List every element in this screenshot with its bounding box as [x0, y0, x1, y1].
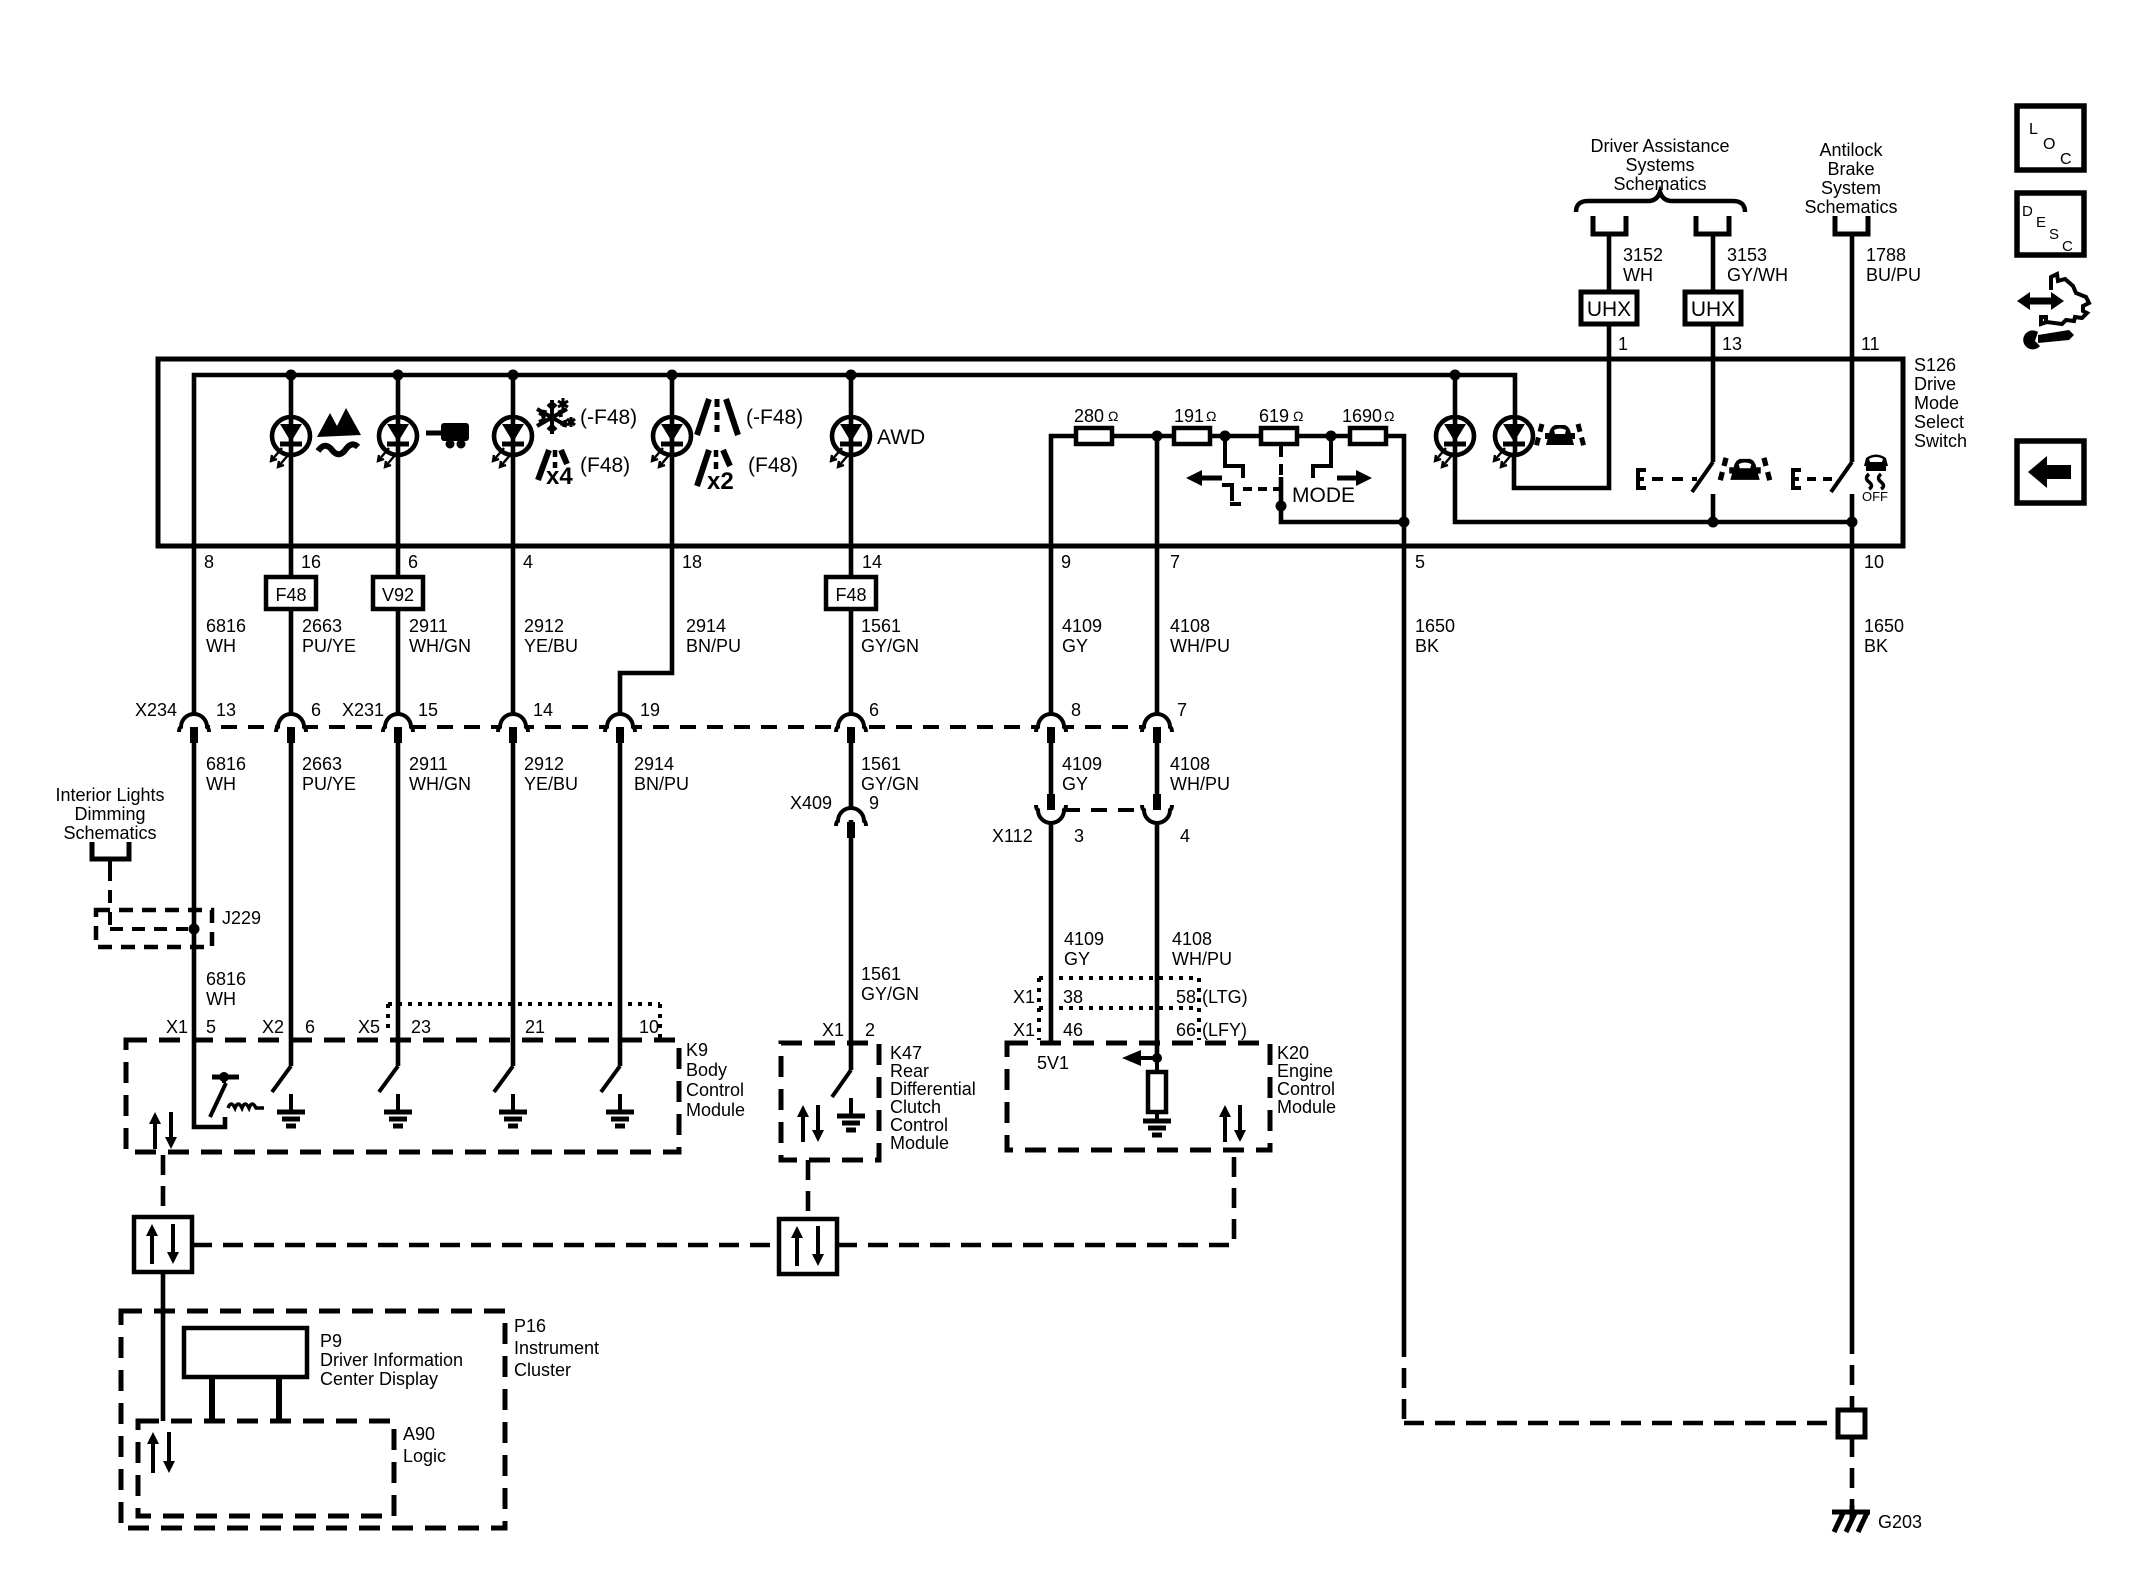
- svg-text:4108: 4108: [1172, 929, 1212, 949]
- svg-text:14: 14: [533, 700, 553, 720]
- svg-text:6: 6: [311, 700, 321, 720]
- wire 2663 PU/YE (pin 16 to K9 X2-6): [289, 546, 294, 577]
- svg-text:4: 4: [523, 552, 533, 572]
- icon slippery road (LED mode1): [317, 408, 361, 454]
- connector X112 pin 3: [1042, 812, 1060, 823]
- svg-text:GY/GN: GY/GN: [861, 984, 919, 1004]
- svg-text:(LTG): (LTG): [1202, 987, 1248, 1007]
- MODE switch left fixed contact: [1225, 436, 1243, 478]
- svg-text:WH/PU: WH/PU: [1170, 636, 1230, 656]
- svg-text:15: 15: [418, 700, 438, 720]
- svg-text:Ω: Ω: [1206, 408, 1216, 424]
- K9 dimmer rheostat (X1-5): [194, 1040, 264, 1127]
- svg-text:4108: 4108: [1170, 754, 1210, 774]
- connector X409 pin 9: [842, 809, 860, 820]
- header Driver Assistance Systems Schematics: [1590, 136, 1729, 194]
- K9 switch to ground (X2-6): [289, 1040, 294, 1066]
- switch1 lane-keep blade: [1692, 462, 1713, 492]
- K20 Engine Control Module box: [1007, 1043, 1270, 1150]
- connector X234 pin 6: [282, 714, 300, 725]
- svg-text:S: S: [2049, 226, 2059, 243]
- svg-text:1690: 1690: [1342, 406, 1382, 426]
- node switch2-bus: [1847, 517, 1858, 528]
- K47 switch to ground (X1-2): [849, 1043, 854, 1070]
- svg-text:8: 8: [1071, 700, 1081, 720]
- svg-text:P9: P9: [320, 1331, 342, 1351]
- svg-text:AWD: AWD: [877, 426, 925, 449]
- serial data connector box (right): [779, 1219, 837, 1274]
- svg-text:280: 280: [1074, 406, 1104, 426]
- svg-text:C: C: [2062, 238, 2073, 255]
- svg-text:GY/WH: GY/WH: [1727, 265, 1788, 285]
- K20 internal ground: [1155, 1112, 1159, 1120]
- svg-text:System: System: [1821, 178, 1881, 198]
- svg-text:MODE: MODE: [1292, 484, 1355, 507]
- resistor 619 ohm: [1261, 428, 1297, 444]
- S126 bottom pin numbers: [204, 552, 1884, 572]
- wire pin11 into switch2: [1850, 240, 1855, 462]
- svg-text:8: 8: [204, 552, 214, 572]
- icon x4 road (LED snow alt): [538, 450, 573, 490]
- svg-text:21: 21: [525, 1017, 545, 1037]
- svg-text:PU/YE: PU/YE: [302, 636, 356, 656]
- LED indicator drv-assist-2: [1494, 417, 1533, 467]
- svg-text:Driver Assistance: Driver Assistance: [1590, 136, 1729, 156]
- svg-text:Center Display: Center Display: [320, 1369, 438, 1389]
- wire 2914 BN/PU (pin 18 to K9 10): [620, 546, 672, 727]
- node switch1-bus: [1708, 517, 1719, 528]
- node ladder-pin7: [1152, 431, 1163, 442]
- svg-text:Schematics: Schematics: [1804, 197, 1897, 217]
- K9 switch to ground (21): [511, 1040, 516, 1066]
- svg-text:4109: 4109: [1062, 754, 1102, 774]
- svg-text:WH: WH: [206, 989, 236, 1009]
- svg-text:GY: GY: [1062, 774, 1088, 794]
- ground G203: [1832, 1505, 1870, 1532]
- svg-text:Control: Control: [890, 1115, 948, 1135]
- off-page connector to driver assistance (wire 3153): [1696, 216, 1729, 234]
- svg-text:6816: 6816: [206, 616, 246, 636]
- svg-text:(LFY): (LFY): [1202, 1020, 1247, 1040]
- icon lane keep car (LED drv-assist-2): [1536, 424, 1584, 447]
- module V92: [373, 577, 423, 609]
- svg-text:GY: GY: [1062, 636, 1088, 656]
- svg-text:19: 19: [640, 700, 660, 720]
- svg-text:Drive: Drive: [1914, 374, 1956, 394]
- svg-text:Schematics: Schematics: [63, 823, 156, 843]
- svg-text:BN/PU: BN/PU: [686, 636, 741, 656]
- svg-text:66: 66: [1176, 1020, 1196, 1040]
- svg-text:UHX: UHX: [1587, 298, 1631, 321]
- svg-text:WH: WH: [206, 636, 236, 656]
- connector UHX 1: [1581, 292, 1637, 324]
- svg-text:Select: Select: [1914, 412, 1964, 432]
- svg-text:UHX: UHX: [1691, 298, 1735, 321]
- svg-text:9: 9: [869, 793, 879, 813]
- wire 3152 WH: [1607, 234, 1612, 292]
- bus junction node: [393, 370, 404, 381]
- svg-text:6: 6: [305, 1017, 315, 1037]
- svg-text:BK: BK: [1415, 636, 1439, 656]
- wire 1788 BU/PU: [1850, 234, 1855, 240]
- svg-text:YE/BU: YE/BU: [524, 636, 578, 656]
- svg-text:x2: x2: [707, 468, 734, 495]
- svg-text:(-F48): (-F48): [746, 406, 803, 429]
- svg-text:Interior Lights: Interior Lights: [55, 785, 164, 805]
- svg-text:F48: F48: [275, 585, 306, 605]
- svg-text:(F48): (F48): [748, 454, 798, 477]
- svg-text:Logic: Logic: [403, 1446, 446, 1466]
- svg-text:Dimming: Dimming: [74, 804, 145, 824]
- svg-text:Module: Module: [686, 1100, 745, 1120]
- LED indicator tow: [378, 417, 417, 467]
- wire switch1 to bus: [1711, 494, 1716, 522]
- connector X112 pin 4: [1148, 812, 1166, 823]
- svg-text:Control: Control: [1277, 1079, 1335, 1099]
- svg-text:X231: X231: [342, 700, 384, 720]
- svg-text:GY/GN: GY/GN: [861, 774, 919, 794]
- svg-text:Antilock: Antilock: [1819, 140, 1883, 160]
- LED indicator road: [652, 417, 691, 467]
- svg-text:WH/PU: WH/PU: [1172, 949, 1232, 969]
- svg-text:Rear: Rear: [890, 1061, 929, 1081]
- svg-text:Driver Information: Driver Information: [320, 1350, 463, 1370]
- LED indicator awd: [831, 417, 870, 467]
- wire serial box to P16: [161, 1272, 166, 1421]
- svg-text:3: 3: [1074, 826, 1084, 846]
- serial bus K47 drop: [806, 1160, 811, 1219]
- svg-text:1561: 1561: [861, 754, 901, 774]
- svg-text:2663: 2663: [302, 616, 342, 636]
- svg-text:5: 5: [206, 1017, 216, 1037]
- connector X231 pin 8: [1042, 714, 1060, 725]
- resistor 280 ohm: [1076, 428, 1112, 444]
- svg-text:6816: 6816: [206, 969, 246, 989]
- wire 6816 WH (pin 8 to K9 X1-5): [192, 546, 197, 727]
- bus junction node: [1450, 370, 1461, 381]
- svg-text:WH/PU: WH/PU: [1170, 774, 1230, 794]
- serial data connector box (left): [134, 1217, 192, 1272]
- svg-text:10: 10: [639, 1017, 659, 1037]
- supply bus wire inside S126: [194, 375, 1515, 546]
- svg-text:G203: G203: [1878, 1512, 1922, 1532]
- icon trailer (LED tow): [426, 423, 469, 449]
- connector UHX 2: [1685, 292, 1741, 324]
- connector row dashed line X234/X231: [194, 725, 1157, 729]
- header Antilock Brake System Schematics: [1804, 140, 1897, 217]
- wire LED column pin18: [670, 375, 675, 546]
- svg-text:X1: X1: [822, 1020, 844, 1040]
- svg-text:F48: F48: [835, 585, 866, 605]
- fuse F48 (awd): [826, 577, 876, 609]
- wire 3153 GY/WH: [1711, 234, 1716, 292]
- splice block to ground: [1838, 1410, 1865, 1437]
- icon lane keep car (switch1): [1720, 458, 1770, 482]
- svg-text:6: 6: [869, 700, 879, 720]
- svg-text:1650: 1650: [1864, 616, 1904, 636]
- wire UHX2 to pin 13: [1711, 324, 1716, 360]
- svg-text:23: 23: [411, 1017, 431, 1037]
- svg-text:13: 13: [216, 700, 236, 720]
- svg-text:5: 5: [1415, 552, 1425, 572]
- K47 serial data arrows: [801, 1115, 805, 1142]
- wire 4108 WH/PU (pin 7 to K20 X1-66): [1155, 436, 1160, 727]
- svg-text:1561: 1561: [861, 964, 901, 984]
- connector X1 dotted block (K20): [1039, 978, 1199, 1040]
- svg-text:BN/PU: BN/PU: [634, 774, 689, 794]
- svg-text:P16: P16: [514, 1316, 546, 1336]
- wire LED6 to selector bus: [1455, 375, 1852, 522]
- svg-text:BU/PU: BU/PU: [1866, 265, 1921, 285]
- wire LED column pin4: [511, 375, 516, 546]
- K47 Rear Differential Clutch Control Module box: [781, 1043, 879, 1160]
- svg-text:Control: Control: [686, 1080, 744, 1100]
- svg-text:Brake: Brake: [1827, 159, 1874, 179]
- svg-text:Mode: Mode: [1914, 393, 1959, 413]
- svg-text:Switch: Switch: [1914, 431, 1967, 451]
- brace under header: [1576, 192, 1745, 212]
- svg-text:2: 2: [865, 1020, 875, 1040]
- wire switch2 to pin10: [1850, 494, 1855, 546]
- svg-text:14: 14: [862, 552, 882, 572]
- P9 legs: [209, 1377, 215, 1421]
- LED indicator snow: [493, 417, 532, 467]
- MODE switch actuator dashes: [1243, 487, 1279, 491]
- wire 1650 BK (pin 10 to G203): [1850, 546, 1855, 1334]
- icon ESC off car (switch2): [1864, 455, 1888, 490]
- svg-text:Cluster: Cluster: [514, 1360, 571, 1380]
- wire 4109 GY (pin 9 to K20 X1-46): [1049, 546, 1054, 727]
- svg-text:1561: 1561: [861, 616, 901, 636]
- node MODE pole: [1276, 501, 1287, 512]
- icon snowflake (LED snow): [537, 400, 567, 434]
- K9 switch to ground (X5-23): [396, 1040, 401, 1066]
- bus junction node: [667, 370, 678, 381]
- svg-text:4108: 4108: [1170, 616, 1210, 636]
- off-page connector to antilock brakes (wire 1788): [1835, 216, 1868, 234]
- svg-text:WH/GN: WH/GN: [409, 774, 471, 794]
- svg-text:2914: 2914: [686, 616, 726, 636]
- P16 Instrument Cluster box: [121, 1311, 505, 1528]
- svg-text:6: 6: [408, 552, 418, 572]
- svg-text:13: 13: [1722, 334, 1742, 354]
- LED indicator drv-assist-1: [1435, 417, 1474, 467]
- svg-text:1788: 1788: [1866, 245, 1906, 265]
- connector X231 pin 7: [1148, 714, 1166, 725]
- icon box LOC: [2017, 106, 2084, 170]
- switch2 actuator E---: [1793, 470, 1832, 488]
- svg-text:4109: 4109: [1064, 929, 1104, 949]
- bus junction node: [286, 370, 297, 381]
- svg-text:X5: X5: [358, 1017, 380, 1037]
- node ladder-b: [1326, 431, 1337, 442]
- switch2 esc-off blade: [1831, 462, 1852, 492]
- svg-text:3153: 3153: [1727, 245, 1767, 265]
- icon box back-arrow: [2017, 441, 2084, 503]
- MODE switch pole: [1279, 446, 1283, 476]
- svg-text:A90: A90: [403, 1424, 435, 1444]
- wire LED7 to pin1 column: [1514, 359, 1609, 488]
- svg-text:X234: X234: [135, 700, 177, 720]
- svg-text:D: D: [2022, 203, 2033, 220]
- P9 Driver Information Center Display: [184, 1328, 307, 1377]
- header Interior Lights Dimming Schematics: [55, 785, 164, 843]
- svg-text:58: 58: [1176, 987, 1196, 1007]
- K9 serial data arrows: [153, 1122, 157, 1149]
- svg-text:38: 38: [1063, 987, 1083, 1007]
- svg-text:2912: 2912: [524, 754, 564, 774]
- svg-text:X1: X1: [1013, 1020, 1035, 1040]
- svg-text:K20: K20: [1277, 1043, 1309, 1063]
- svg-text:J229: J229: [222, 908, 261, 928]
- svg-text:L: L: [2029, 121, 2038, 138]
- connector X231 pin 15: [389, 714, 407, 725]
- connector X5 dotted block: [388, 1004, 660, 1040]
- svg-text:2911: 2911: [409, 754, 448, 774]
- node J229 on wire 6816: [189, 924, 200, 935]
- svg-text:4109: 4109: [1062, 616, 1102, 636]
- svg-text:619: 619: [1259, 406, 1289, 426]
- svg-text:YE/BU: YE/BU: [524, 774, 578, 794]
- bus junction node: [846, 370, 857, 381]
- svg-text:GY/GN: GY/GN: [861, 636, 919, 656]
- svg-text:Module: Module: [1277, 1097, 1336, 1117]
- svg-text:E: E: [2036, 214, 2046, 231]
- MODE switch blade left: [1222, 485, 1232, 501]
- wire LED column pin14: [849, 375, 854, 546]
- svg-text:1650: 1650: [1415, 616, 1455, 636]
- svg-text:10: 10: [1864, 552, 1884, 572]
- svg-text:O: O: [2043, 136, 2055, 153]
- svg-text:X1: X1: [166, 1017, 188, 1037]
- svg-text:191: 191: [1174, 406, 1204, 426]
- svg-text:X2: X2: [262, 1017, 284, 1037]
- svg-text:BK: BK: [1864, 636, 1888, 656]
- connector X231 pin 6 (1561): [842, 714, 860, 725]
- serial bus K9 drop: [161, 1155, 166, 1217]
- K20 reference arrow: [1122, 1050, 1157, 1066]
- svg-text:2663: 2663: [302, 754, 342, 774]
- K20 serial data arrows: [1223, 1115, 1227, 1142]
- bus junction node: [508, 370, 519, 381]
- svg-text:C: C: [2060, 151, 2072, 168]
- svg-text:Module: Module: [890, 1133, 949, 1153]
- connector X231 pin 19: [611, 714, 629, 725]
- svg-text:11: 11: [1861, 334, 1880, 354]
- resistor 191 ohm: [1174, 428, 1210, 444]
- icon directions-and-tools: [2017, 274, 2089, 349]
- svg-text:(F48): (F48): [580, 454, 630, 477]
- svg-text:9: 9: [1061, 552, 1071, 572]
- node ladder-a: [1220, 431, 1231, 442]
- svg-text:V92: V92: [382, 585, 414, 605]
- svg-text:WH: WH: [1623, 265, 1653, 285]
- S126 Drive Mode Select Switch outline: [158, 359, 1903, 546]
- svg-text:7: 7: [1177, 700, 1187, 720]
- wire 1650 BK (pin 5 to G203): [1402, 522, 1407, 1337]
- svg-text:2914: 2914: [634, 754, 674, 774]
- wire LED column pin6: [396, 375, 401, 546]
- wire 2911 WH/GN (pin 6 to K9 X5-23): [396, 546, 401, 577]
- splice J229: [92, 842, 212, 947]
- svg-text:7: 7: [1170, 552, 1180, 572]
- svg-text:5V1: 5V1: [1037, 1053, 1069, 1073]
- svg-text:Systems: Systems: [1625, 155, 1694, 175]
- svg-text:Ω: Ω: [1384, 408, 1394, 424]
- svg-text:2911: 2911: [409, 616, 448, 636]
- K9 Body Control Module box: [126, 1040, 679, 1152]
- svg-text:K9: K9: [686, 1040, 708, 1060]
- MODE switch right arrow: [1337, 470, 1372, 486]
- X112 connector dashes: [1064, 808, 1144, 812]
- svg-text:16: 16: [301, 552, 321, 572]
- K9 switch to ground (10): [618, 1040, 623, 1066]
- svg-text:X112: X112: [992, 826, 1033, 846]
- K20 pull resistor: [1155, 1058, 1159, 1072]
- serial data bus dashed: [192, 1243, 779, 1248]
- off-page connector to driver assistance (wire 3152): [1593, 216, 1626, 234]
- node K20 sense: [1152, 1053, 1162, 1063]
- svg-text:K47: K47: [890, 1043, 922, 1063]
- svg-text:Instrument: Instrument: [514, 1338, 599, 1358]
- svg-text:x4: x4: [546, 463, 573, 490]
- connector X231 pin 14: [504, 714, 522, 725]
- svg-text:X409: X409: [790, 793, 832, 813]
- svg-text:PU/YE: PU/YE: [302, 774, 356, 794]
- node ladder-pin5: [1399, 517, 1410, 528]
- LED indicator mode1: [271, 417, 310, 467]
- svg-text:Clutch: Clutch: [890, 1097, 941, 1117]
- wire resistor ladder rail: [1051, 436, 1404, 546]
- MODE switch left arrow: [1186, 470, 1222, 486]
- svg-text:18: 18: [682, 552, 702, 572]
- svg-text:4: 4: [1180, 826, 1190, 846]
- switch1 actuator E---: [1638, 470, 1697, 488]
- svg-text:Differential: Differential: [890, 1079, 976, 1099]
- svg-text:Engine: Engine: [1277, 1061, 1333, 1081]
- svg-text:46: 46: [1063, 1020, 1083, 1040]
- wire UHX1 to pin 1: [1607, 324, 1612, 360]
- svg-text:S126: S126: [1914, 355, 1956, 375]
- svg-text:Body: Body: [686, 1060, 727, 1080]
- svg-text:(-F48): (-F48): [580, 406, 637, 429]
- svg-text:X1: X1: [1013, 987, 1035, 1007]
- fuse F48: [266, 577, 316, 609]
- wire 1561 GY/GN (pin 14 to K47 X1-2): [849, 546, 854, 577]
- resistor 1690 ohm: [1350, 428, 1386, 444]
- svg-text:OFF: OFF: [1862, 489, 1888, 504]
- icon lane road (LED road): [697, 399, 738, 435]
- svg-text:2912: 2912: [524, 616, 564, 636]
- svg-text:GY: GY: [1064, 949, 1090, 969]
- A90 Logic box: [138, 1421, 394, 1516]
- wire 2912 YE/BU (pin 4 to K9 21): [511, 546, 516, 727]
- svg-text:1: 1: [1618, 334, 1628, 354]
- S126 label: [1914, 355, 1967, 451]
- wire LED column pin16: [289, 375, 294, 546]
- icon box DESC: [2017, 193, 2084, 255]
- MODE switch right fixed contact: [1313, 436, 1331, 478]
- A90 serial data arrows: [151, 1442, 155, 1473]
- wire pin13 to switch1: [1711, 359, 1716, 462]
- icon x2 road (LED road alt): [697, 450, 734, 495]
- svg-text:3152: 3152: [1623, 245, 1663, 265]
- svg-text:Ω: Ω: [1108, 408, 1118, 424]
- svg-text:WH/GN: WH/GN: [409, 636, 471, 656]
- svg-text:6816: 6816: [206, 754, 246, 774]
- svg-text:Ω: Ω: [1293, 408, 1303, 424]
- svg-text:WH: WH: [206, 774, 236, 794]
